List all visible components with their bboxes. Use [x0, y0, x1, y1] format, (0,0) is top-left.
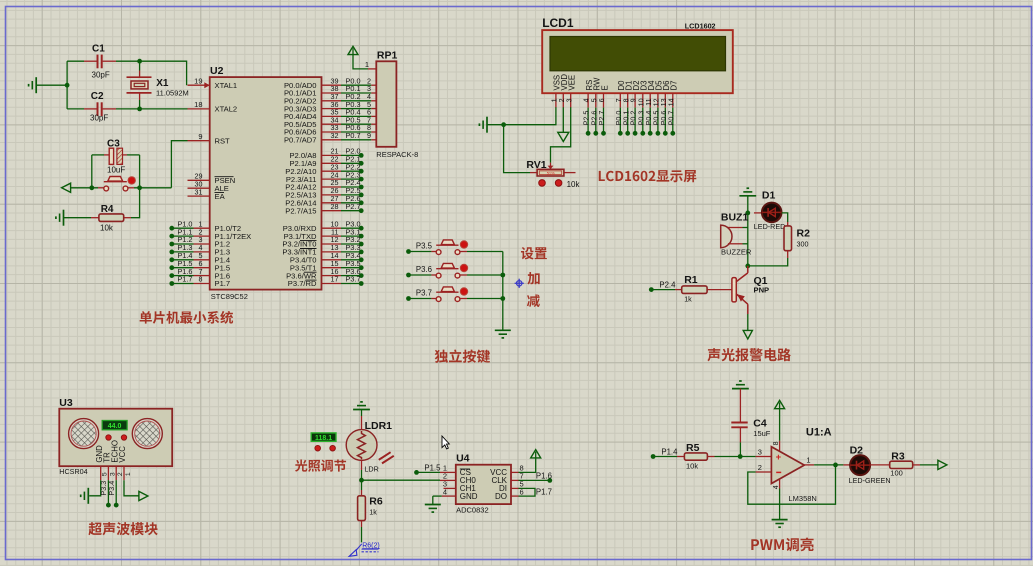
svg-text:EA: EA [215, 192, 226, 201]
svg-text:10uF: 10uF [107, 166, 125, 175]
svg-text:30pF: 30pF [92, 71, 110, 80]
svg-text:P2.7: P2.7 [597, 111, 606, 126]
svg-text:31: 31 [195, 187, 203, 196]
svg-text:2: 2 [758, 463, 762, 472]
svg-text:100: 100 [890, 469, 903, 478]
svg-text:P1.5: P1.5 [424, 463, 441, 472]
svg-text:R3: R3 [891, 450, 905, 462]
svg-text:300: 300 [797, 240, 809, 249]
svg-text:C2: C2 [91, 91, 104, 102]
svg-text:11.0592M: 11.0592M [156, 89, 189, 98]
svg-text:XTAL2: XTAL2 [215, 105, 238, 114]
svg-text:32: 32 [331, 131, 339, 140]
svg-text:P0.7/AD7: P0.7/AD7 [284, 136, 317, 145]
svg-text:2: 2 [117, 472, 124, 476]
svg-text:P2.4: P2.4 [659, 281, 676, 290]
svg-text:1k: 1k [369, 507, 377, 516]
svg-text:8: 8 [199, 275, 203, 284]
svg-text:30pF: 30pF [90, 113, 108, 122]
svg-text:R6: R6 [369, 496, 383, 508]
svg-text:8: 8 [773, 441, 780, 445]
svg-text:9: 9 [367, 131, 371, 140]
svg-text:118.1: 118.1 [315, 435, 332, 442]
svg-text:X1: X1 [156, 78, 169, 89]
svg-text:P1.7: P1.7 [536, 488, 552, 497]
svg-text:LDR: LDR [364, 465, 378, 474]
svg-text:RV1: RV1 [526, 159, 546, 171]
svg-text:P3.4: P3.4 [107, 481, 116, 496]
svg-text:P3.6: P3.6 [416, 265, 432, 274]
svg-text:LDR1: LDR1 [365, 420, 393, 432]
svg-text:BUZ1: BUZ1 [721, 211, 749, 223]
svg-text:P1.6: P1.6 [536, 471, 552, 480]
svg-text:GND: GND [460, 492, 478, 501]
svg-text:1: 1 [365, 60, 369, 69]
svg-text:15uF: 15uF [753, 429, 771, 438]
svg-text:R6(2): R6(2) [362, 542, 380, 549]
svg-text:E: E [600, 85, 609, 90]
svg-text:R2: R2 [797, 228, 811, 240]
svg-text:BUZZER: BUZZER [721, 248, 752, 257]
svg-text:3: 3 [109, 472, 116, 476]
svg-text:HCSR04: HCSR04 [59, 467, 87, 476]
svg-text:R4: R4 [101, 204, 114, 215]
svg-text:51%: 51% [547, 171, 555, 176]
svg-text:10k: 10k [686, 462, 698, 471]
svg-text:19: 19 [194, 76, 202, 85]
svg-text:U1:A: U1:A [806, 427, 832, 439]
svg-text:P1.7: P1.7 [215, 279, 231, 288]
svg-text:10k: 10k [567, 180, 581, 189]
svg-text:ADC0832: ADC0832 [456, 506, 489, 515]
svg-text:VCC: VCC [118, 446, 127, 463]
svg-text:RST: RST [215, 136, 231, 145]
svg-text:9: 9 [198, 132, 202, 141]
svg-text:3: 3 [758, 448, 762, 457]
svg-text:1: 1 [125, 472, 132, 476]
svg-text:17: 17 [331, 275, 339, 284]
svg-text:D7: D7 [670, 81, 679, 91]
svg-text:PNP: PNP [754, 286, 770, 295]
svg-text:DO: DO [495, 492, 507, 501]
svg-text:VEE: VEE [568, 75, 577, 91]
svg-text:P2.7: P2.7 [346, 202, 361, 211]
svg-text:XTAL1: XTAL1 [215, 81, 238, 90]
svg-text:U2: U2 [210, 65, 224, 77]
svg-text:3: 3 [564, 98, 573, 102]
svg-text:STC89C52: STC89C52 [211, 292, 248, 301]
svg-text:1k: 1k [684, 294, 692, 303]
svg-text:R1: R1 [684, 274, 698, 286]
svg-text:D1: D1 [762, 190, 776, 202]
svg-text:P2.7/A15: P2.7/A15 [285, 206, 316, 215]
svg-text:4: 4 [773, 485, 780, 489]
svg-text:C4: C4 [753, 418, 767, 430]
svg-text:P0.7: P0.7 [666, 111, 675, 126]
svg-text:5: 5 [102, 472, 109, 476]
svg-text:18: 18 [194, 100, 202, 109]
svg-text:LCD1602: LCD1602 [685, 21, 716, 30]
svg-text:RESPACK-8: RESPACK-8 [376, 150, 418, 159]
svg-text:U4: U4 [456, 453, 470, 465]
svg-text:RP1: RP1 [377, 50, 398, 62]
svg-text:D2: D2 [850, 444, 864, 456]
svg-text:P3.7/RD: P3.7/RD [288, 279, 317, 288]
svg-text:P3.5: P3.5 [416, 242, 433, 251]
svg-text:44.0: 44.0 [108, 423, 122, 430]
svg-text:U3: U3 [59, 397, 73, 409]
svg-text:P3.7: P3.7 [416, 289, 432, 298]
svg-text:P1.4: P1.4 [661, 448, 678, 457]
svg-text:R5: R5 [686, 442, 700, 454]
svg-text:P1.7: P1.7 [177, 275, 192, 284]
svg-text:C1: C1 [92, 44, 105, 55]
svg-text:6: 6 [597, 98, 606, 102]
svg-text:10k: 10k [100, 224, 114, 233]
svg-text:LED-GREEN: LED-GREEN [849, 476, 891, 485]
svg-text:1: 1 [806, 455, 810, 464]
svg-text:28: 28 [331, 202, 339, 211]
svg-text:14: 14 [666, 98, 675, 106]
svg-text:+: + [776, 452, 782, 463]
svg-text:P0.7: P0.7 [346, 131, 361, 140]
svg-text:LM358N: LM358N [789, 494, 817, 503]
svg-text:LED-RED: LED-RED [754, 222, 786, 231]
svg-text:P3.7: P3.7 [346, 275, 361, 284]
svg-text:LCD1: LCD1 [542, 16, 574, 30]
